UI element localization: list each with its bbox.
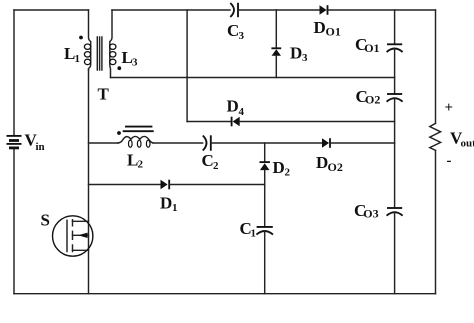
svg-text:2: 2 (285, 167, 291, 179)
capacitor CO2 (387, 94, 403, 102)
wire L2 to C2 (153, 142, 202, 144)
diode DO2 (322, 138, 330, 148)
wire top middle segment (238, 9, 319, 11)
svg-text:3: 3 (132, 57, 138, 69)
svg-text:O2: O2 (365, 93, 380, 107)
wire D4 row right (240, 121, 395, 123)
capacitor CO3 (387, 208, 403, 216)
svg-text:2: 2 (213, 160, 219, 172)
svg-text:in: in (36, 141, 45, 153)
L2 core lines (123, 127, 154, 132)
diode D2 (260, 162, 270, 170)
wire left rail lower (13, 149, 15, 294)
svg-text:2: 2 (138, 159, 144, 171)
inductor L3 (transformer secondary) (110, 10, 116, 78)
wire left rail upper (13, 10, 15, 135)
svg-text:D: D (273, 158, 285, 177)
wire C2 to DO2 (211, 142, 322, 144)
svg-text:O1: O1 (326, 25, 341, 39)
diode D3 (271, 48, 281, 56)
capacitor C3 (230, 3, 238, 17)
svg-text:O2: O2 (328, 160, 343, 174)
svg-text:out: out (461, 137, 474, 149)
wire right rail lower (435, 150, 437, 293)
inductor L1 (transformer primary) (84, 10, 90, 70)
svg-text:O3: O3 (363, 207, 378, 221)
inductor L2 (118, 136, 153, 147)
wire D1 row right (169, 184, 265, 186)
svg-text:4: 4 (239, 106, 245, 118)
capacitor CO1 (387, 44, 403, 52)
svg-text:T: T (98, 85, 110, 104)
svg-text:S: S (41, 211, 50, 230)
resistor Vout load (430, 123, 441, 150)
wire DO2 to output column (330, 142, 395, 144)
wire right rail upper (435, 10, 437, 123)
dot L3 (117, 66, 121, 70)
diode D1 (161, 180, 170, 190)
wire D3 branch upper (275, 10, 277, 48)
output capacitor column upper wire (394, 10, 396, 44)
wire D1 row from rail (89, 184, 161, 186)
wire top-left segment (14, 9, 89, 11)
wire C1 to bottom (264, 231, 266, 294)
diode D4 (232, 117, 240, 127)
battery Vin (7, 136, 22, 148)
wire CO1 to row77 (394, 48, 396, 94)
capacitor C1 (256, 227, 273, 235)
MOSFET S (52, 216, 92, 256)
svg-text:3: 3 (302, 52, 308, 64)
svg-text:D: D (316, 153, 328, 172)
svg-text:1: 1 (172, 202, 178, 214)
wire L2 row from rail (89, 142, 119, 144)
capacitor C2 (203, 135, 211, 150)
diode DO1 (320, 5, 328, 15)
wire secondary row y77.5 (111, 77, 395, 79)
svg-text:D: D (160, 194, 172, 213)
svg-text:C: C (202, 151, 214, 170)
svg-text:D: D (227, 97, 239, 116)
wire top right segment 2 (328, 9, 436, 11)
svg-text:1: 1 (75, 53, 81, 65)
dot L1 (79, 36, 83, 40)
wire vertical from top to D4 row (186, 10, 188, 122)
wire CO2 down (394, 98, 396, 208)
svg-text:C: C (227, 21, 239, 40)
wire D2 to C1 (264, 170, 266, 227)
svg-text:3: 3 (239, 30, 245, 42)
svg-text:-: - (447, 153, 452, 169)
transformer core T (97, 37, 102, 70)
wire bottom rail (14, 293, 436, 295)
dot L2 (117, 131, 121, 135)
svg-text:O1: O1 (364, 41, 379, 55)
wire D4 row left (187, 121, 231, 123)
svg-text:1: 1 (251, 228, 257, 240)
svg-text:D: D (290, 44, 302, 63)
wire CO3 to bottom (394, 212, 396, 294)
wire top-right segment (112, 9, 230, 11)
svg-text:+: + (445, 100, 454, 116)
wire D2 branch upper (264, 143, 266, 162)
wire D3 branch lower (275, 56, 277, 78)
wire center rail (transformer primary to bottom) (88, 70, 90, 294)
svg-text:D: D (314, 18, 326, 37)
